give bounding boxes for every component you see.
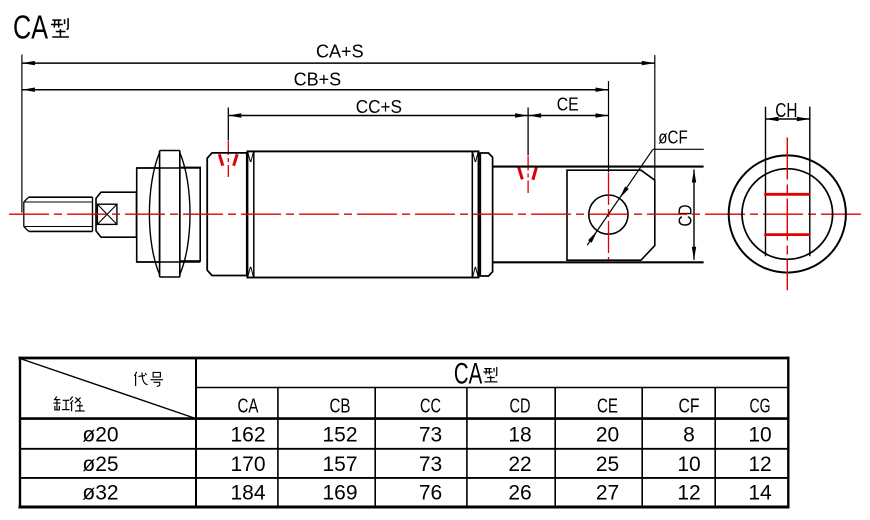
wrench flat square with X [97, 204, 117, 224]
end view vertical centerline [786, 138, 788, 291]
svg-text:CB+S: CB+S [294, 69, 342, 89]
leader line ØCF [587, 149, 704, 245]
svg-text:CA: CA [238, 396, 259, 418]
end view outer circle [729, 155, 846, 272]
cylinder rear cap [480, 153, 492, 276]
svg-text:73: 73 [419, 424, 442, 447]
rod wrench flat section [96, 192, 137, 237]
table header CA型 [454, 357, 498, 390]
piston rod thread [24, 197, 93, 231]
port 2 symbol [519, 167, 537, 180]
table row ø20 [82, 424, 771, 447]
end view red bar top [764, 193, 810, 196]
svg-text:157: 157 [322, 453, 357, 476]
svg-text:20: 20 [596, 424, 619, 447]
svg-text:ø32: ø32 [82, 482, 118, 505]
svg-text:27: 27 [596, 482, 619, 505]
dimension CH [766, 100, 810, 122]
clevis block [567, 170, 655, 260]
nut facet boundary lines [137, 168, 201, 262]
svg-text:ø20: ø20 [82, 424, 118, 447]
svg-text:184: 184 [230, 482, 265, 505]
svg-text:CD: CD [510, 396, 531, 418]
svg-text:14: 14 [748, 482, 772, 505]
svg-text:12: 12 [677, 482, 700, 505]
dimension CB+S [22, 69, 609, 92]
rod clevis outer line bottom (CD extension) [493, 261, 704, 263]
table row line 1 [20, 448, 788, 450]
table row line 2 [20, 477, 788, 479]
svg-text:CH: CH [775, 100, 797, 122]
dimension CD [676, 170, 697, 260]
dimension CE [528, 94, 608, 117]
svg-text:170: 170 [230, 453, 265, 476]
svg-text:162: 162 [230, 424, 265, 447]
wire extension line CB+S right [608, 81, 610, 173]
port 2 centerline [527, 156, 529, 194]
port 2 extension line [527, 108, 529, 156]
svg-text:CA+S: CA+S [316, 42, 364, 62]
port 1 symbol [219, 154, 237, 166]
tube right ring [472, 152, 478, 278]
end view slot line left [765, 107, 767, 257]
head clamp ring [247, 152, 253, 278]
svg-text:26: 26 [508, 482, 531, 505]
mounting nut middle facet [160, 151, 180, 278]
svg-text:169: 169 [322, 482, 357, 505]
table column lines [278, 388, 715, 508]
rod clevis outer line top (CD extension) [493, 166, 704, 168]
svg-text:10: 10 [677, 453, 700, 476]
table column headers [238, 396, 771, 418]
svg-text:CE: CE [557, 94, 579, 114]
svg-text:CA: CA [454, 357, 482, 390]
wire extension line left rod end [21, 55, 23, 213]
svg-text:CG: CG [750, 396, 771, 418]
clevis pin hole [589, 195, 628, 234]
end view inner circle [742, 169, 833, 260]
table label 代号 [134, 372, 163, 387]
table outer border [19, 357, 790, 509]
wire extension line right clevis edge (CA+S) [654, 55, 656, 181]
svg-text:CE: CE [597, 396, 618, 418]
svg-text:CB: CB [330, 396, 351, 418]
end view red bar bottom [764, 233, 810, 236]
svg-text:22: 22 [508, 453, 531, 476]
svg-text:CD: CD [676, 205, 696, 227]
svg-text:CC+S: CC+S [356, 97, 402, 117]
mounting nut left facet [137, 153, 160, 275]
cylinder tube [247, 151, 478, 277]
table diagonal [20, 359, 196, 419]
end view slot line right [809, 107, 811, 257]
port 1 extension line [227, 108, 229, 141]
table thick line under header row [20, 417, 788, 420]
svg-text:25: 25 [596, 453, 619, 476]
svg-text:CF: CF [679, 396, 700, 418]
mounting nut right facet [180, 153, 200, 275]
svg-text:8: 8 [683, 424, 695, 447]
table row line under CA型 [196, 387, 788, 389]
port 1 centerline [227, 141, 229, 177]
dimension CA+S [22, 42, 655, 66]
svg-text:76: 76 [419, 482, 442, 505]
table row ø32 [82, 482, 772, 505]
hole vertical centerline [608, 173, 610, 259]
svg-text:152: 152 [322, 424, 357, 447]
svg-text:18: 18 [508, 424, 531, 447]
title CA型 [13, 8, 69, 45]
svg-text:10: 10 [748, 424, 771, 447]
table row ø25 [82, 453, 771, 476]
cylinder head [207, 153, 247, 276]
dimension CC+S [228, 97, 528, 118]
svg-text:øCF: øCF [658, 127, 687, 147]
main centerline [9, 213, 866, 215]
svg-text:73: 73 [419, 453, 442, 476]
svg-text:ø25: ø25 [82, 453, 118, 476]
svg-text:12: 12 [748, 453, 771, 476]
svg-text:CC: CC [420, 396, 441, 418]
svg-text:CA: CA [13, 8, 48, 45]
table label 缸径 [54, 397, 85, 412]
table column line first [195, 358, 197, 507]
